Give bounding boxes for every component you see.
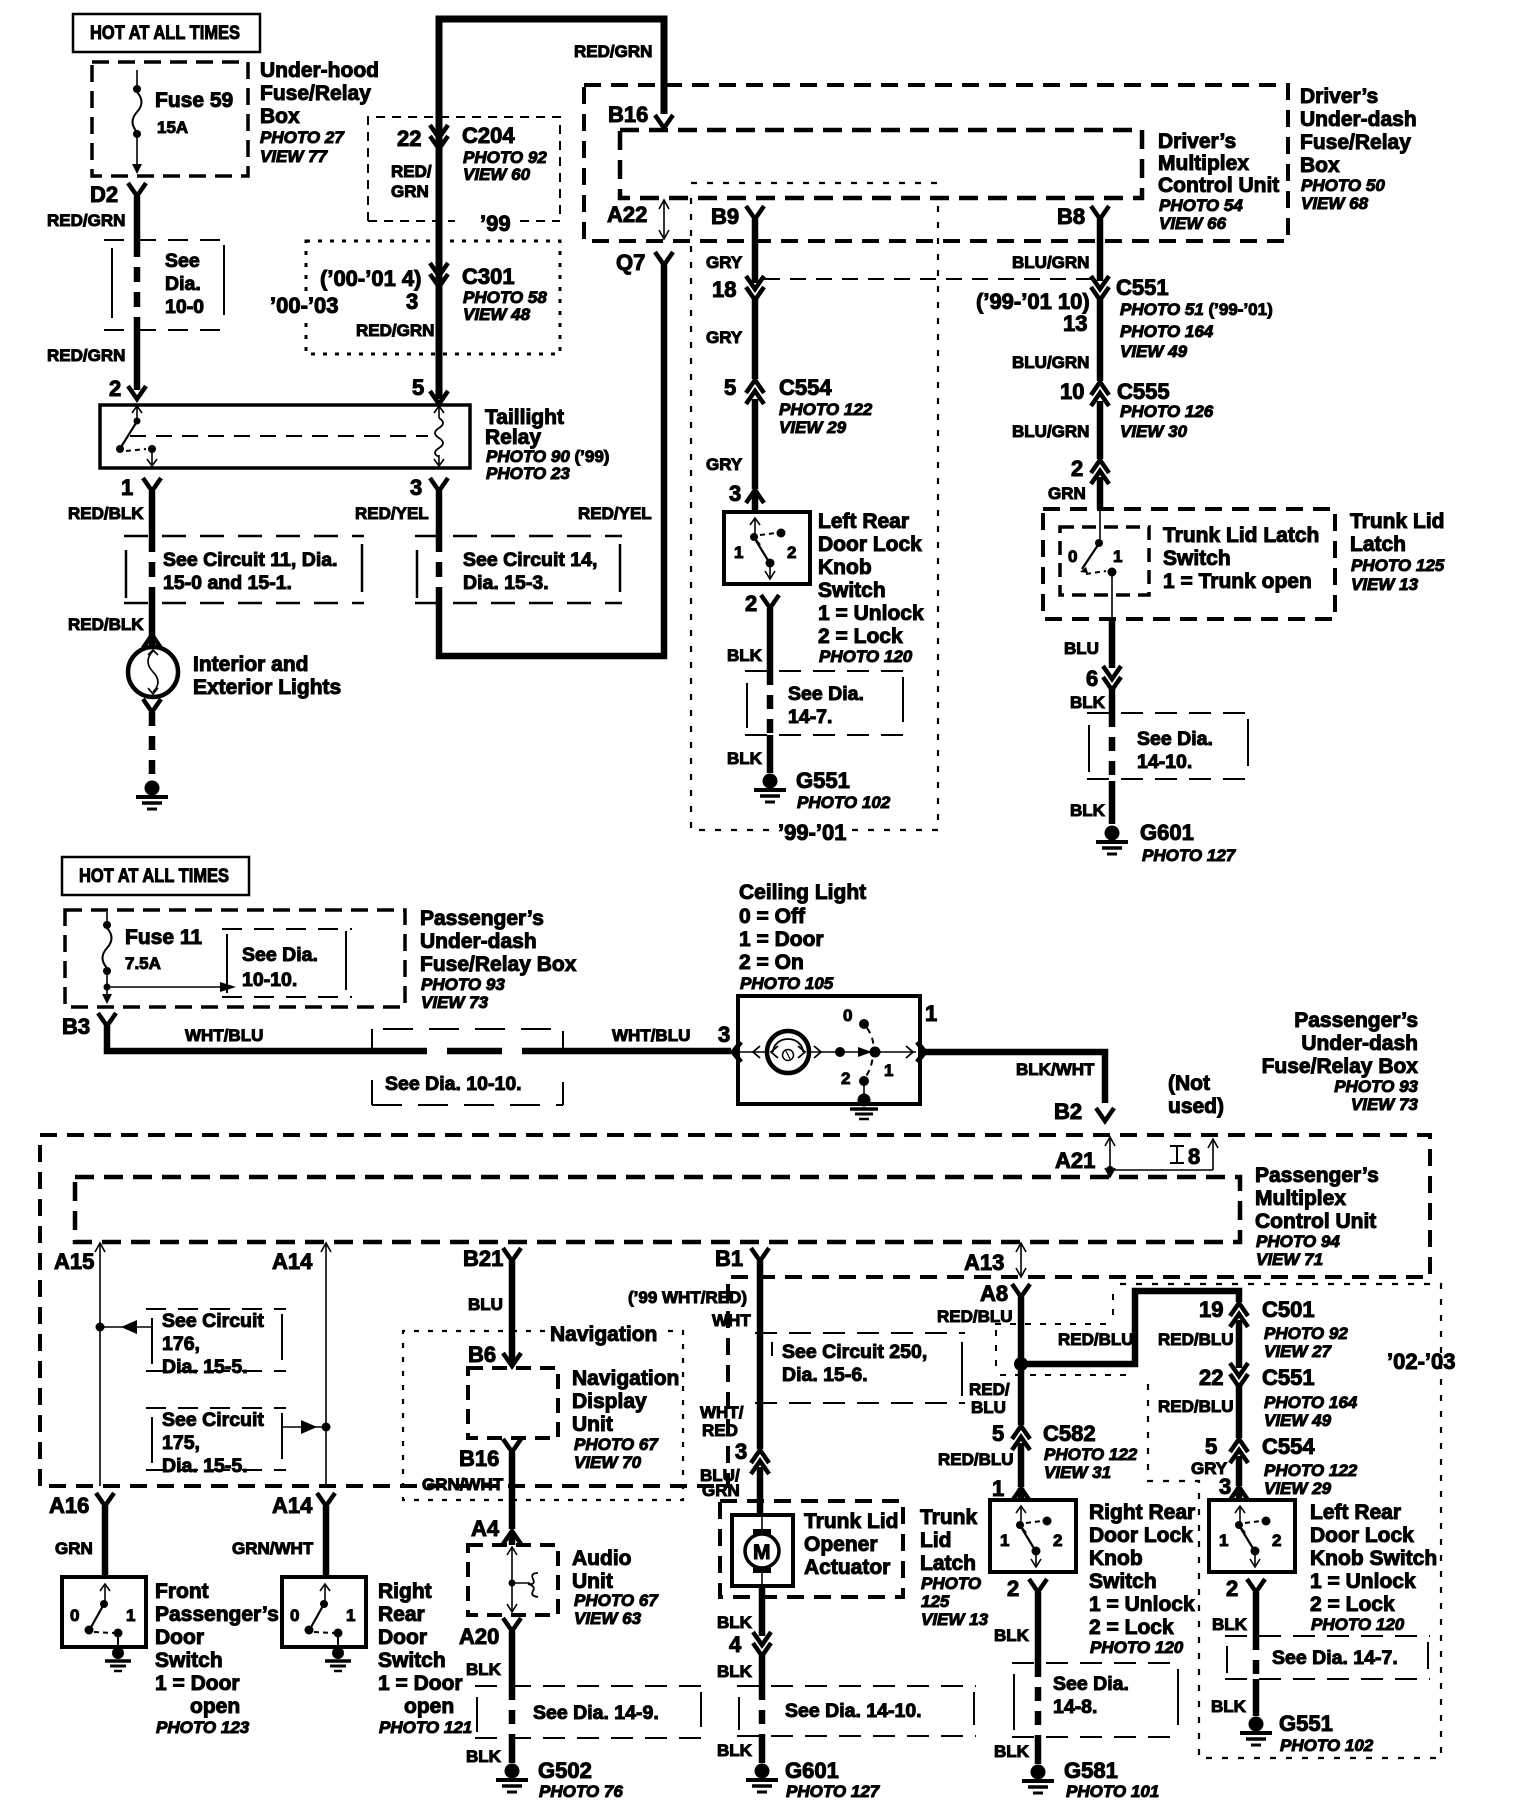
svg-text:Trunk Lid: Trunk Lid [804,1510,899,1533]
svg-text:PHOTO 93: PHOTO 93 [421,975,505,994]
svg-text:BLU/GRN: BLU/GRN [1012,353,1089,372]
label right rear door lock knob switch [1089,1501,1195,1657]
svg-text:GRY: GRY [706,253,743,272]
pin B16 (nav) [459,1439,521,1471]
svg-text:2: 2 [841,1069,850,1088]
svg-text:Switch: Switch [378,1649,446,1672]
svg-text:2 = Lock: 2 = Lock [818,625,903,648]
svg-text:BLU: BLU [1064,639,1099,658]
pin B16 [608,102,673,128]
fuse 11 [102,912,236,1004]
svg-text:Door Lock: Door Lock [818,533,922,556]
wire BLU/GRN [1012,401,1100,459]
svg-text:13: 13 [1063,311,1087,336]
svg-text:2: 2 [745,591,757,616]
connector C501 [1199,1297,1348,1361]
connector 3 [735,1439,769,1474]
svg-text:D2: D2 [90,182,118,207]
label left rear door lock knob switch [818,510,924,666]
svg-text:Passenger’s: Passenger’s [155,1603,279,1626]
wire BLK to G601 [717,1655,762,1763]
svg-text:1 = Unlock: 1 = Unlock [818,602,924,625]
svg-text:BLU: BLU [468,1295,503,1314]
trunk lid latch box (dashed) [1043,509,1335,619]
svg-text:Latch: Latch [1350,533,1406,556]
taillight relay [100,405,470,468]
ground G551 ('02-'03) [1240,1711,1374,1755]
svg-text:Right Rear: Right Rear [1089,1501,1195,1524]
svg-text:HOT AT ALL TIMES: HOT AT ALL TIMES [79,865,229,887]
svg-text:RED/BLK: RED/BLK [68,504,144,523]
svg-text:125: 125 [921,1592,950,1611]
wire pin3 RED/YEL loop to Q7 [355,265,664,656]
svg-text:Fuse 59: Fuse 59 [155,89,233,112]
svg-text:Dia.: Dia. [165,273,201,295]
svg-text:1: 1 [992,1476,1004,1501]
ground G601 (bottom) [746,1758,881,1801]
svg-text:Box: Box [260,105,300,128]
svg-text:Dia. 15-6.: Dia. 15-6. [782,1364,868,1386]
connector 4 [729,1632,771,1657]
trunk lid opener actuator box (dashed) [720,1501,903,1597]
svg-text:1: 1 [1113,547,1122,566]
svg-text:open: open [190,1695,240,1718]
svg-text:used): used) [1168,1095,1224,1118]
svg-text:B2: B2 [1054,1099,1082,1124]
svg-text:Trunk Lid: Trunk Lid [1350,510,1445,533]
svg-text:BLK: BLK [994,1742,1030,1761]
under-hood fuse/relay box [92,62,248,176]
svg-text:Ceiling Light: Ceiling Light [739,881,866,904]
svg-text:See Circuit 250,: See Circuit 250, [782,1341,927,1363]
left rear door lock knob switch ('99-'01) [724,512,810,584]
svg-text:10: 10 [1060,379,1084,404]
svg-text:PHOTO 94: PHOTO 94 [1256,1232,1340,1251]
svg-text:PHOTO 105: PHOTO 105 [740,974,834,993]
wire RED/BLU jog to C501 [1021,1291,1239,1364]
svg-text:See Dia. 14-10.: See Dia. 14-10. [785,1700,922,1722]
svg-text:PHOTO 120: PHOTO 120 [819,647,913,666]
svg-text:VIEW 60: VIEW 60 [463,165,531,184]
svg-text:See: See [165,250,200,272]
navigation dotted box [403,1323,683,1500]
svg-text:3: 3 [735,1439,747,1464]
svg-text:2 = On: 2 = On [739,951,804,974]
svg-text:G551: G551 [796,768,850,793]
svg-text:5: 5 [992,1421,1004,1446]
svg-text:PHOTO 101: PHOTO 101 [1066,1782,1159,1801]
svg-text:PHOTO 67: PHOTO 67 [574,1591,659,1610]
connector C301 box [266,241,560,354]
svg-text:Driver’s: Driver’s [1158,130,1236,153]
svg-text:See Dia.: See Dia. [1137,728,1213,750]
svg-text:G502: G502 [538,1758,592,1783]
label right rear door switch [378,1580,472,1737]
svg-text:C554: C554 [1262,1434,1315,1459]
svg-text:Under-dash: Under-dash [1301,1032,1418,1055]
svg-text:PHOTO 164: PHOTO 164 [1120,322,1214,341]
svg-text:RED/: RED/ [391,162,432,181]
svg-text:VIEW 13: VIEW 13 [1351,575,1419,594]
svg-text:PHOTO 121: PHOTO 121 [379,1718,472,1737]
svg-text:Switch: Switch [155,1649,223,1672]
svg-text:(’99 WHT/RED): (’99 WHT/RED) [628,1288,747,1307]
svg-text:Unit: Unit [572,1413,613,1436]
svg-text:C554: C554 [779,375,832,400]
label passenger's multiplex control unit [1255,1164,1379,1269]
svg-text:BLK: BLK [717,1741,753,1760]
svg-text:Under-dash: Under-dash [1300,108,1417,131]
svg-text:A8: A8 [980,1281,1008,1306]
svg-text:PHOTO 164: PHOTO 164 [1264,1393,1358,1412]
svg-text:Relay: Relay [485,426,541,449]
svg-text:3: 3 [718,1022,730,1047]
ground G581 [1022,1758,1159,1801]
svg-text:Passenger’s: Passenger’s [1294,1009,1418,1032]
connector C582 [992,1421,1138,1482]
svg-text:G551: G551 [1279,1711,1333,1736]
svg-text:PHOTO 50: PHOTO 50 [1301,176,1385,195]
passenger's multiplex control unit box [75,1177,1240,1242]
svg-text:WHT/: WHT/ [700,1403,744,1422]
wire GRY [1191,1456,1239,1486]
svg-text:PHOTO 126: PHOTO 126 [1120,402,1214,421]
pin A22 arrow [607,200,669,239]
svg-text:G601: G601 [785,1758,839,1783]
front passenger's door switch [62,1577,146,1647]
svg-text:PHOTO 125: PHOTO 125 [1351,556,1445,575]
wire D2 to relay pin 2 [47,196,137,390]
svg-text:BLK: BLK [1070,693,1106,712]
pin A13 [964,1243,1026,1277]
svg-text:0 = Off: 0 = Off [739,905,806,928]
svg-text:BLK: BLK [727,749,763,768]
svg-text:Door Lock: Door Lock [1310,1524,1414,1547]
svg-text:RED/BLK: RED/BLK [68,615,144,634]
svg-text:GRN: GRN [55,1539,93,1558]
svg-text:GRN: GRN [702,1481,740,1500]
svg-text:’00-’03: ’00-’03 [270,293,339,318]
ground (front passenger door switch) [105,1647,131,1671]
svg-text:0: 0 [1068,547,1077,566]
svg-text:See Circuit: See Circuit [162,1310,264,1332]
svg-text:A14: A14 [272,1493,313,1518]
svg-text:1 = Unlock: 1 = Unlock [1310,1570,1416,1593]
svg-text:Trunk: Trunk [920,1506,977,1529]
svg-text:See Circuit: See Circuit [162,1409,264,1431]
svg-text:1: 1 [121,475,133,500]
svg-text:Under-dash: Under-dash [420,930,537,953]
pin 1 trunk lid latch (mid) [992,1476,1030,1501]
svg-text:Door: Door [378,1626,427,1649]
svg-text:See Dia. 14-7.: See Dia. 14-7. [1272,1647,1398,1669]
svg-text:C551: C551 [1116,275,1169,300]
see dia 10-0 box [104,240,228,330]
svg-text:PHOTO 23: PHOTO 23 [486,464,570,483]
passenger's under-dash fuse/relay box (outer, L-shape) [40,1135,1430,1486]
trunk lid opener actuator motor [732,1515,793,1586]
pin B3 [62,1013,116,1039]
label passenger's under-dash fuse/relay box [420,907,577,1012]
svg-text:GRN: GRN [391,182,429,201]
wire GRY [706,399,755,489]
svg-text:4: 4 [729,1632,742,1657]
pin A20 [459,1618,521,1649]
svg-text:C301: C301 [462,264,515,289]
svg-text:2: 2 [109,376,121,401]
connector C554 ('02-'03) [1205,1434,1358,1498]
connector 18 [712,276,1091,302]
svg-text:WHT: WHT [712,1311,751,1330]
svg-text:Multiplex: Multiplex [1255,1187,1346,1210]
svg-text:See Dia.: See Dia. [788,683,864,705]
svg-text:RED/BLU: RED/BLU [1058,1330,1134,1349]
svg-text:RED/YEL: RED/YEL [578,504,652,523]
ground G601 [1096,820,1237,865]
svg-text:PHOTO: PHOTO [921,1574,981,1593]
svg-text:B16: B16 [608,102,648,127]
svg-text:VIEW 48: VIEW 48 [463,305,531,324]
svg-text:PHOTO 122: PHOTO 122 [1264,1461,1358,1480]
pin A16 [49,1493,114,1577]
left rear door lock knob switch ('02-'03) [1209,1500,1295,1572]
fuse 59 [132,70,233,174]
wire BLK/WHT to B2 [925,1052,1105,1103]
svg-text:14-7.: 14-7. [788,706,832,728]
pin 2 wire to G551 [727,591,779,773]
relay pin 2 [109,376,146,401]
svg-text:PHOTO 67: PHOTO 67 [574,1435,659,1454]
wire B8 BLU/GRN [1012,219,1100,281]
svg-text:Lid: Lid [920,1529,952,1552]
svg-text:(’00-’01 4): (’00-’01 4) [320,266,422,291]
wire lamp to ground [143,699,161,778]
wire RED/BLU [1158,1386,1239,1438]
svg-text:BLK: BLK [717,1613,753,1632]
svg-text:Opener: Opener [804,1533,878,1556]
svg-text:PHOTO 120: PHOTO 120 [1311,1615,1405,1634]
passenger's under-dash fuse/relay box (fuse 11) [65,910,405,1007]
label ceiling light [739,881,866,993]
svg-text:Knob: Knob [1089,1547,1143,1570]
wire RED/GRN top [439,19,664,399]
svg-text:RED/: RED/ [969,1380,1010,1399]
label driver's multiplex control unit [1158,130,1279,233]
svg-text:15A: 15A [157,118,188,137]
wire RED/BLU [1158,1320,1239,1368]
svg-text:BLU/GRN: BLU/GRN [1012,253,1089,272]
svg-text:B16: B16 [459,1446,499,1471]
svg-text:WHT/BLU: WHT/BLU [612,1026,690,1045]
pin 2 wire to G581 [994,1576,1047,1764]
svg-text:Multiplex: Multiplex [1158,152,1249,175]
svg-text:10-0: 10-0 [165,296,204,318]
svg-text:VIEW 70: VIEW 70 [574,1453,642,1472]
wire B9 GRY [706,219,755,283]
svg-text:A14: A14 [272,1249,313,1274]
see dia 14-7 box ('99-'01) [745,671,905,735]
svg-text:5: 5 [1205,1434,1217,1459]
pin A14 (lower) [232,1493,335,1577]
svg-text:G601: G601 [1140,820,1194,845]
svg-text:B9: B9 [711,204,739,229]
wire WHT/BLU to ceiling light [107,1026,731,1051]
svg-text:PHOTO 76: PHOTO 76 [539,1782,623,1801]
svg-text:22: 22 [1199,1365,1223,1390]
svg-text:PHOTO 54: PHOTO 54 [1159,196,1243,215]
svg-text:1: 1 [884,1061,893,1080]
svg-text:176,: 176, [162,1333,200,1355]
connector C204 box [368,117,560,236]
svg-text:18: 18 [712,277,736,302]
svg-text:RED/GRN: RED/GRN [47,346,125,365]
svg-text:Driver’s: Driver’s [1300,85,1378,108]
svg-text:BLK: BLK [1070,801,1106,820]
svg-text:2: 2 [1226,1576,1238,1601]
svg-text:22: 22 [397,126,421,151]
svg-text:Under-hood: Under-hood [260,59,379,82]
svg-text:A20: A20 [459,1624,499,1649]
svg-text:See Dia. 14-9.: See Dia. 14-9. [533,1702,659,1724]
svg-text:PHOTO 92: PHOTO 92 [1264,1324,1348,1343]
wire pin1 RED/BLK [68,491,152,636]
svg-text:A15: A15 [54,1249,94,1274]
dotted box 99-01 [691,183,938,845]
svg-text:Rear: Rear [378,1603,425,1626]
svg-text:VIEW 73: VIEW 73 [421,993,489,1012]
label under-hood box [260,59,379,166]
label HOT AT ALL TIMES (middle) [62,857,249,895]
svg-text:Actuator: Actuator [804,1556,890,1579]
svg-text:19: 19 [1199,1297,1223,1322]
svg-text:Door Lock: Door Lock [1089,1524,1193,1547]
svg-text:PHOTO 93: PHOTO 93 [1334,1077,1418,1096]
svg-text:Left Rear: Left Rear [818,510,909,533]
label driver's under-dash box [1300,85,1417,213]
svg-text:GRN/WHT: GRN/WHT [422,1475,504,1494]
svg-text:See Dia. 10-10.: See Dia. 10-10. [385,1073,522,1095]
svg-text:Exterior Lights: Exterior Lights [193,676,341,699]
svg-text:’99-’01: ’99-’01 [778,820,847,845]
label trunk lid latch (mid) [920,1506,989,1629]
svg-text:1 = Unlock: 1 = Unlock [1089,1593,1195,1616]
svg-text:BLK: BLK [1211,1697,1247,1716]
wire WHT [628,1261,760,1449]
connector C554 [724,375,873,437]
svg-text:Fuse/Relay Box: Fuse/Relay Box [420,953,577,976]
pin B2 [1054,1099,1114,1124]
label audio unit [572,1547,659,1628]
svg-text:3: 3 [410,475,422,500]
svg-text:VIEW 13: VIEW 13 [921,1610,989,1629]
svg-text:GRY: GRY [706,455,743,474]
svg-text:Audio: Audio [572,1547,631,1570]
connector C551 [976,275,1273,361]
svg-text:VIEW 66: VIEW 66 [1159,214,1227,233]
trunk lid latch switch (mid) [990,1500,1076,1572]
svg-text:M: M [753,1541,771,1564]
svg-text:WHT/BLU: WHT/BLU [185,1026,263,1045]
wire BLU/GRN [1012,299,1100,381]
svg-text:BLK: BLK [1212,1615,1248,1634]
svg-text:Fuse 11: Fuse 11 [125,926,202,949]
svg-text:Passenger’s: Passenger’s [1255,1164,1379,1187]
svg-text:VIEW 29: VIEW 29 [1264,1479,1332,1498]
svg-text:G581: G581 [1064,1758,1118,1783]
label passenger's under-dash fuse/relay box (right) [1262,1009,1419,1114]
svg-text:C582: C582 [1043,1421,1096,1446]
svg-text:Switch: Switch [1163,547,1231,570]
svg-text:PHOTO 127: PHOTO 127 [786,1782,881,1801]
see dia 10-10 box (inside fuse box) [222,929,352,997]
ground G551 [754,768,891,812]
svg-text:6: 6 [1086,666,1098,691]
svg-text:’99: ’99 [480,211,511,236]
see circuit 176 box [96,1309,287,1378]
svg-text:1 = Door: 1 = Door [155,1672,240,1695]
svg-text:VIEW 27: VIEW 27 [1264,1342,1333,1361]
svg-text:GRY: GRY [706,328,743,347]
svg-text:C204: C204 [462,123,515,148]
svg-text:RED/BLU: RED/BLU [937,1307,1013,1326]
svg-text:BLU/GRN: BLU/GRN [1012,422,1089,441]
svg-text:(Not: (Not [1168,1072,1210,1095]
label not used [1168,1072,1224,1118]
svg-text:PHOTO 120: PHOTO 120 [1090,1638,1184,1657]
svg-text:C501: C501 [1262,1297,1315,1322]
svg-text:1: 1 [925,1001,937,1026]
wire RED/BLU [938,1443,1021,1487]
svg-text:PHOTO 102: PHOTO 102 [1280,1736,1374,1755]
connector 2 GRN [1048,456,1109,509]
svg-text:BLU: BLU [971,1398,1006,1417]
svg-text:PHOTO 122: PHOTO 122 [779,400,873,419]
label trunk lid latch switch [1163,524,1319,593]
svg-text:Dia. 15-5.: Dia. 15-5. [162,1455,248,1477]
svg-text:B1: B1 [715,1246,743,1271]
svg-text:Left Rear: Left Rear [1310,1501,1401,1524]
pin B6 [468,1342,521,1367]
dotted box 02-03 [1120,1284,1456,1758]
svg-text:Knob: Knob [818,556,872,579]
svg-text:RED/GRN: RED/GRN [356,321,434,340]
ground (interior lights) [136,781,168,810]
svg-text:BLK: BLK [466,1747,502,1766]
svg-text:175,: 175, [162,1432,200,1454]
svg-text:PHOTO 127: PHOTO 127 [1142,846,1237,865]
svg-text:VIEW 31: VIEW 31 [1044,1463,1111,1482]
svg-text:1 = Door: 1 = Door [739,928,824,951]
right rear door switch [282,1577,366,1647]
svg-text:Fuse/Relay: Fuse/Relay [260,82,371,105]
relay pin 1 [121,475,161,500]
relay pin 3 [410,475,448,500]
svg-text:BLK: BLK [717,1662,753,1681]
svg-text:A4: A4 [471,1516,500,1541]
svg-text:PHOTO 51 (’99-’01): PHOTO 51 (’99-’01) [1120,300,1273,319]
see dia 14-7 box ('02-'03) [1225,1636,1430,1679]
driver's under-dash fuse/relay box [584,85,1288,241]
label taillight relay [485,406,609,483]
svg-text:15-0 and 15-1.: 15-0 and 15-1. [163,572,292,594]
svg-text:BLK: BLK [994,1626,1030,1645]
svg-text:Right: Right [378,1580,432,1603]
ground G502 [496,1758,623,1801]
connector C551 ('02-'03) [1199,1363,1358,1430]
dashed fragments near A8 [995,1294,1135,1375]
svg-text:BLK/WHT: BLK/WHT [1016,1060,1095,1079]
see circuit 175 box [146,1408,331,1477]
